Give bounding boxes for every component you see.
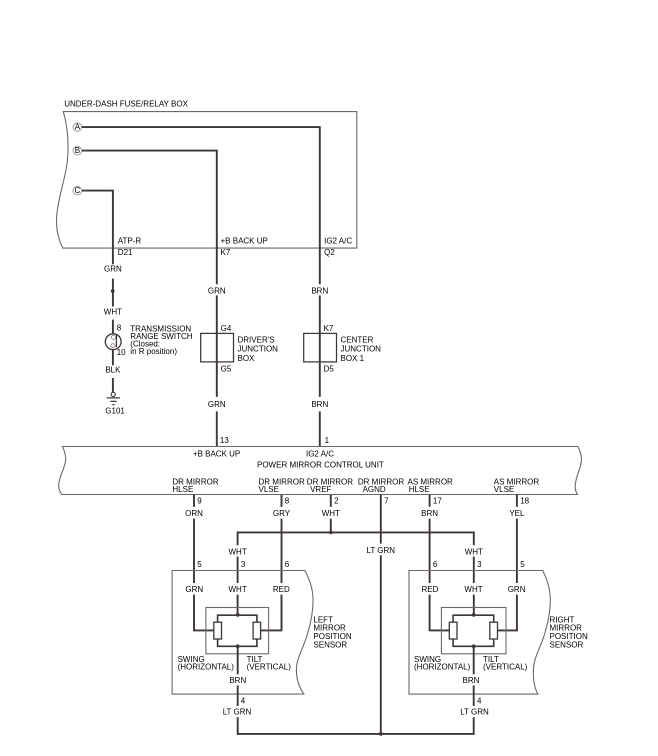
pin 8 wire upper segment [281, 495, 283, 507]
VREF bus wire [238, 532, 474, 545]
right sensor BRN output wire [473, 646, 475, 674]
svg-text:6: 6 [285, 560, 290, 569]
center junction box name label [341, 335, 382, 363]
pin label +B BACK UP / K7 [221, 237, 268, 257]
svg-text:D5: D5 [324, 364, 335, 373]
left sensor BRN output wire [237, 646, 239, 674]
terminal C [73, 186, 82, 195]
splice junction dot left column [111, 289, 115, 293]
svg-text:VLSE: VLSE [259, 485, 279, 494]
svg-text:IG2 A/C: IG2 A/C [324, 237, 352, 246]
svg-text:7: 7 [384, 496, 389, 505]
pin 3 wire to right bridge [473, 595, 475, 615]
wire segment BLK to ground [112, 378, 114, 392]
svg-text:GRN: GRN [104, 265, 122, 274]
under-dash fuse/relay box outline [56, 112, 356, 249]
svg-text:18: 18 [520, 496, 529, 505]
driver's junction box name label [238, 335, 279, 363]
svg-text:10: 10 [117, 348, 126, 357]
pin 3 wire to left bridge [237, 595, 239, 615]
pin 17 wire to right sensor [429, 519, 431, 583]
svg-text:5: 5 [520, 560, 525, 569]
left bridge bottom junction dot [236, 644, 240, 648]
swing label (right sensor) [414, 655, 471, 672]
pin 8 wire to left sensor [281, 519, 283, 583]
svg-text:LT GRN: LT GRN [460, 708, 489, 717]
svg-text:BRN: BRN [311, 400, 328, 409]
wire segment right column through center junction box [319, 295, 321, 397]
pin label ATP-R / D21 [118, 237, 142, 257]
svg-text:9: 9 [197, 496, 202, 505]
svg-text:HLSE: HLSE [409, 485, 430, 494]
left sensor inner frame [206, 608, 269, 654]
svg-text:LT GRN: LT GRN [223, 708, 252, 717]
pin 7 wire to ground bus [380, 555, 382, 734]
svg-text:DRIVER'S: DRIVER'S [238, 335, 275, 344]
right bridge bottom junction dot [472, 644, 476, 648]
right mirror position sensor name label [550, 615, 588, 649]
LT GRN ground bus wire [238, 733, 474, 735]
svg-text:BOX: BOX [238, 354, 256, 363]
pin 6 wire to right swing potentiometer [430, 595, 450, 631]
left bridge bottom wire [218, 639, 257, 646]
wire segment middle column through driver's junction box [216, 295, 218, 397]
svg-text:JUNCTION: JUNCTION [341, 345, 382, 354]
svg-text:1: 1 [325, 436, 330, 445]
svg-text:8: 8 [285, 496, 290, 505]
transmission range switch name label [130, 325, 192, 357]
pin label DR MIRROR VLSE [259, 477, 305, 494]
right sensor inner frame [441, 608, 506, 654]
svg-text:BOX 1: BOX 1 [341, 354, 365, 363]
pin label DR MIRROR HLSE [172, 477, 218, 494]
svg-text:WHT: WHT [322, 509, 340, 518]
pin 18 wire upper segment [516, 495, 518, 507]
pin 17 wire upper segment [429, 495, 431, 507]
swing potentiometer (right sensor) [449, 622, 457, 639]
VREF bus junction dot [329, 531, 333, 535]
wire A (fuse box to IG2 A/C) [82, 127, 320, 284]
terminal B [73, 146, 82, 155]
svg-text:GRN: GRN [208, 286, 226, 295]
svg-text:UNDER-DASH FUSE/RELAY BOX: UNDER-DASH FUSE/RELAY BOX [64, 100, 188, 109]
terminal A [73, 123, 82, 132]
svg-text:WHT: WHT [228, 585, 246, 594]
svg-text:SENSOR: SENSOR [550, 640, 584, 649]
svg-text:AGND: AGND [363, 485, 386, 494]
svg-text:CENTER: CENTER [341, 335, 374, 344]
right bridge top wire [453, 615, 494, 622]
left bridge top junction dot [236, 613, 240, 617]
svg-text:C: C [75, 186, 81, 195]
svg-text:in R position): in R position) [130, 347, 177, 356]
svg-text:BRN: BRN [229, 676, 246, 685]
svg-text:G101: G101 [105, 406, 125, 415]
svg-text:8: 8 [117, 324, 122, 333]
left mirror position sensor name label [313, 615, 351, 649]
wire segment WHT to switch [112, 320, 114, 334]
pin 9 wire upper segment [193, 495, 195, 507]
svg-text:RED: RED [273, 585, 290, 594]
left bus drop wire [237, 557, 239, 583]
pin label AS MIRROR VLSE [494, 477, 540, 494]
pin label DR MIRROR AGND [358, 477, 404, 494]
driver's junction box [201, 333, 234, 362]
swing label (left sensor) [178, 655, 235, 672]
wire segment right column to control unit [319, 411, 321, 446]
svg-text:GRN: GRN [508, 585, 526, 594]
left mirror position sensor outline [172, 571, 313, 695]
svg-text:SENSOR: SENSOR [313, 640, 347, 649]
svg-text:+B BACK UP: +B BACK UP [221, 237, 268, 246]
svg-text:ORN: ORN [185, 509, 203, 518]
svg-text:5: 5 [197, 560, 202, 569]
wire overlay inside driver's junction box [216, 334, 218, 361]
svg-text:BLK: BLK [105, 365, 121, 374]
wire segment middle column to control unit [216, 411, 218, 446]
svg-text:A: A [75, 123, 81, 132]
svg-text:K7: K7 [324, 324, 334, 333]
right bridge top junction dot [472, 613, 476, 617]
svg-text:6: 6 [433, 560, 438, 569]
svg-text:D21: D21 [118, 248, 133, 257]
svg-text:GRN: GRN [185, 585, 203, 594]
left output wire to ground bus [237, 717, 239, 735]
svg-text:17: 17 [433, 496, 442, 505]
svg-text:WHT: WHT [104, 307, 122, 316]
center junction box 1 [304, 333, 337, 362]
svg-text:JUNCTION: JUNCTION [238, 345, 279, 354]
svg-text:BRN: BRN [311, 286, 328, 295]
svg-text:K7: K7 [221, 248, 231, 257]
svg-text:RED: RED [421, 585, 438, 594]
ground G101 [105, 392, 125, 415]
svg-text:B: B [75, 146, 80, 155]
svg-text:WHT: WHT [464, 585, 482, 594]
swing potentiometer (left sensor) [214, 622, 222, 639]
wire C (fuse box to ATP-R) [82, 191, 113, 265]
tilt potentiometer (left sensor) [253, 622, 261, 639]
svg-text:2: 2 [334, 496, 339, 505]
wire B (fuse box to +B BACK UP) [82, 151, 217, 285]
tilt potentiometer (right sensor) [490, 622, 498, 639]
transmission range switch [105, 334, 121, 350]
pin 5 wire to right tilt potentiometer [498, 595, 517, 631]
wire overlay inside center junction box [319, 334, 321, 361]
svg-text:13: 13 [220, 436, 229, 445]
tilt label (right sensor) [483, 655, 528, 672]
left bridge top wire [218, 615, 257, 622]
svg-text:HLSE: HLSE [172, 485, 193, 494]
right output wire to ground bus [473, 717, 475, 735]
svg-text:4: 4 [477, 697, 482, 706]
wire segment switch to BLK [112, 350, 114, 366]
pin 7 wire upper segment [380, 495, 382, 544]
svg-text:G4: G4 [221, 324, 232, 333]
svg-text:VLSE: VLSE [494, 485, 514, 494]
left sensor output wire through box edge [237, 685, 239, 706]
svg-text:(VERTICAL): (VERTICAL) [247, 663, 292, 672]
svg-text:Q2: Q2 [324, 248, 335, 257]
pin 2 wire to VREF bus [330, 519, 332, 533]
svg-text:YEL: YEL [509, 509, 525, 518]
svg-text:(HORIZONTAL): (HORIZONTAL) [178, 663, 235, 672]
right mirror position sensor outline [409, 571, 550, 695]
pin label IG2 A/C / Q2 [324, 237, 352, 257]
pin 5 wire to swing potentiometer [194, 595, 214, 631]
pin 18 wire to right sensor [516, 519, 518, 583]
pin label DR MIRROR VREF [307, 477, 353, 494]
svg-text:VREF: VREF [310, 485, 331, 494]
svg-text:ATP-R: ATP-R [118, 237, 142, 246]
svg-text:G5: G5 [221, 364, 232, 373]
pin 2 wire upper segment [330, 495, 332, 507]
svg-text:POWER MIRROR CONTROL UNIT: POWER MIRROR CONTROL UNIT [257, 460, 384, 469]
svg-text:3: 3 [477, 560, 482, 569]
ground bus junction dot [379, 732, 383, 736]
wire segment left column GRN-WHT [112, 279, 114, 307]
pin 6 wire to tilt potentiometer [261, 595, 282, 631]
right sensor output wire through box edge [473, 685, 475, 706]
svg-text:(HORIZONTAL): (HORIZONTAL) [414, 663, 471, 672]
pin label AS MIRROR HLSE [408, 477, 454, 494]
svg-text:(VERTICAL): (VERTICAL) [483, 663, 528, 672]
svg-text:+B BACK UP: +B BACK UP [193, 450, 240, 459]
right bridge bottom wire [453, 639, 494, 646]
svg-text:GRN: GRN [208, 400, 226, 409]
svg-text:IG2 A/C: IG2 A/C [306, 450, 334, 459]
svg-text:WHT: WHT [228, 547, 246, 556]
tilt label (left sensor) [247, 655, 292, 672]
svg-text:GRY: GRY [273, 509, 291, 518]
pin 9 wire to left sensor [193, 519, 195, 583]
svg-text:BRN: BRN [421, 509, 438, 518]
svg-text:BRN: BRN [463, 676, 480, 685]
right bus drop wire [473, 557, 475, 583]
svg-text:WHT: WHT [465, 547, 483, 556]
svg-text:LT GRN: LT GRN [366, 546, 395, 555]
svg-text:4: 4 [241, 697, 246, 706]
svg-text:3: 3 [241, 560, 246, 569]
power mirror control unit outline [59, 447, 582, 495]
